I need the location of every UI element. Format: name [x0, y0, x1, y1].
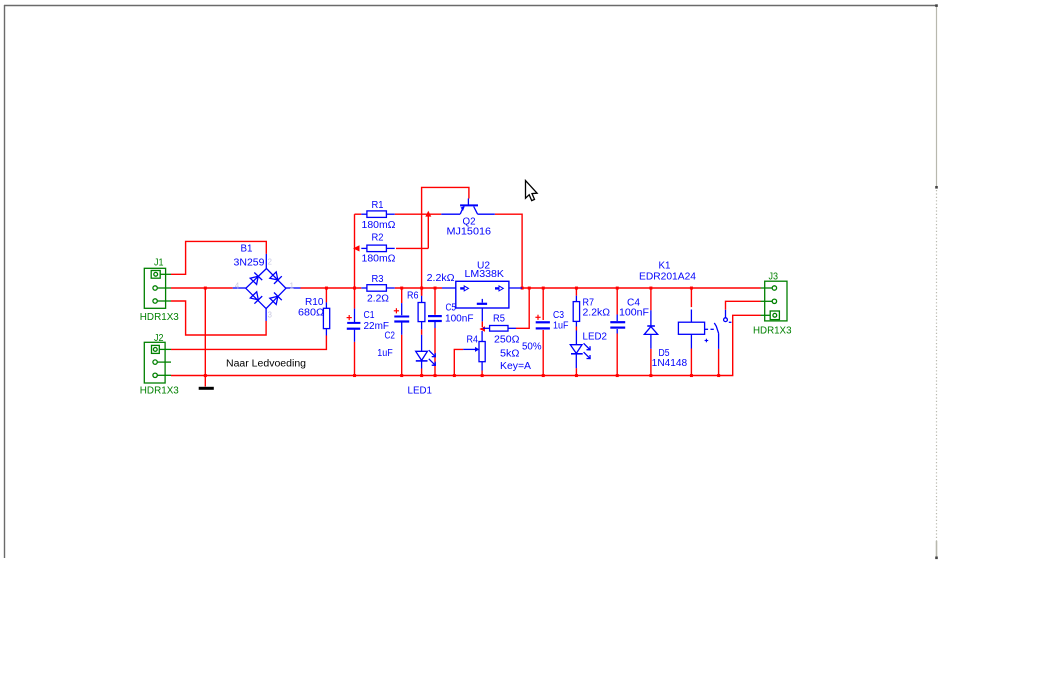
svg-text:C2: C2: [385, 331, 396, 342]
label C4: [627, 298, 640, 309]
sheet border left: [4, 5, 6, 558]
svg-text:2.2kΩ: 2.2kΩ: [427, 273, 456, 284]
svg-text:1: 1: [290, 282, 295, 291]
potentiometer R4: [463, 331, 485, 371]
wire C4 column: [616, 288, 618, 376]
svg-text:K1: K1: [659, 261, 671, 272]
label R1: [372, 200, 384, 211]
label EDR201A24: [639, 272, 696, 283]
label C5: [446, 302, 457, 313]
LED1: [416, 350, 436, 368]
bridge rectifier B1: [233, 254, 301, 321]
wire R1 right to Q2 base: [395, 213, 442, 215]
label C4 value: [619, 308, 649, 319]
svg-text:1N4148: 1N4148: [652, 358, 688, 369]
svg-text:4: 4: [235, 281, 240, 290]
svg-text:1uF: 1uF: [377, 348, 393, 359]
label D5: [659, 348, 670, 359]
sheet border top: [4, 5, 936, 7]
svg-text:LED2: LED2: [583, 332, 608, 343]
label R6 value: [427, 273, 456, 284]
svg-text:J3: J3: [769, 272, 779, 283]
capacitor C2: [394, 303, 409, 335]
svg-text:EDR201A24: EDR201A24: [639, 272, 696, 283]
capacitor C3: [536, 322, 550, 328]
svg-text:J1: J1: [154, 258, 164, 269]
capacitor C1: [347, 309, 361, 342]
wire R10 top: [325, 288, 327, 302]
svg-text:C3: C3: [553, 310, 564, 321]
wire R7 LED2 column: [575, 288, 577, 376]
wire J2 pin1 to R10 bottom: [171, 336, 326, 350]
label 50%: [522, 342, 542, 353]
label R3: [372, 274, 384, 285]
sheet border right: [935, 4, 938, 559]
wire bottom rail: [171, 315, 761, 375]
label J2: [154, 333, 164, 344]
label LED1: [408, 386, 433, 397]
label Naar Ledvoeding: [226, 359, 306, 370]
relay K1 coil: [678, 310, 713, 349]
pin number 3: [268, 311, 273, 320]
wire K1 coil column: [690, 288, 692, 376]
svg-text:180mΩ: 180mΩ: [362, 220, 397, 231]
pin number 2: [268, 258, 273, 267]
svg-text:LED1: LED1: [408, 386, 433, 397]
transistor Q2: [441, 199, 495, 215]
wire J1 pin1 to bridge top: [171, 241, 266, 274]
label C3 value: [553, 321, 569, 332]
svg-text:R6: R6: [407, 291, 419, 302]
resistor R1: [361, 211, 394, 218]
label R2 value: [362, 254, 397, 265]
svg-text:Key=A: Key=A: [500, 361, 531, 372]
wire C2 column: [401, 288, 403, 376]
C2 plus sign: [394, 308, 399, 313]
label J1 HDR1X3: [140, 312, 179, 323]
relay K1 switch: [714, 310, 731, 349]
label U2: [477, 261, 490, 272]
C3 plus sign: [535, 315, 540, 320]
resistor R2: [361, 245, 394, 252]
svg-text:HDR1X3: HDR1X3: [140, 386, 179, 397]
wire bridge right to R3: [301, 287, 362, 289]
resistor R10: [323, 302, 329, 335]
wire J1 pin3 to bridge bottom: [171, 301, 266, 335]
wire rail R3 to U2: [395, 287, 442, 289]
label LM338K: [465, 269, 505, 280]
label R7: [583, 298, 595, 309]
label J3: [769, 272, 779, 283]
label MJ15016: [447, 227, 492, 238]
diode D5: [644, 310, 657, 348]
junction dots: [204, 287, 720, 378]
label B1: [241, 244, 253, 255]
label C3: [553, 310, 564, 321]
svg-text:100nF: 100nF: [445, 314, 474, 325]
svg-text:R5: R5: [493, 314, 505, 325]
wire C1 column: [354, 288, 356, 376]
svg-text:HDR1X3: HDR1X3: [140, 312, 179, 323]
label R10: [305, 297, 324, 308]
label 22mF: [364, 321, 390, 332]
svg-text:2.2kΩ: 2.2kΩ: [583, 308, 611, 319]
resistor R6: [418, 296, 425, 352]
svg-text:R1: R1: [372, 200, 384, 211]
label R7 value: [583, 308, 611, 319]
label K1: [659, 261, 671, 272]
wire J3 pin2 to switch: [726, 301, 761, 310]
label C5 value: [445, 314, 474, 325]
wire ADJ arrow: [479, 326, 485, 331]
svg-text:J2: J2: [154, 333, 164, 344]
label Q2: [463, 217, 476, 228]
resistor R7: [573, 296, 579, 345]
wire Q2 right down to rail: [495, 214, 522, 288]
wire R2 right up to R1 wire: [396, 211, 431, 249]
svg-text:B1: B1: [241, 244, 253, 255]
capacitor C4: [610, 315, 625, 334]
svg-text:C5: C5: [446, 302, 457, 313]
wire top loop: [422, 187, 469, 295]
svg-text:MJ15016: MJ15016: [447, 227, 492, 238]
capacitor C5: [428, 316, 442, 328]
svg-text:3N259: 3N259: [234, 258, 265, 269]
wire rail U2 right to J3: [522, 287, 760, 289]
C1 plus sign: [347, 315, 352, 320]
svg-text:C1: C1: [364, 310, 375, 321]
svg-text:R10: R10: [305, 297, 324, 308]
label R2: [372, 233, 384, 244]
wire C3 column: [542, 288, 544, 376]
label 3N259: [234, 258, 265, 269]
label 1N4148: [652, 358, 688, 369]
wire switch bottom: [718, 349, 720, 376]
regulator U2: [442, 281, 522, 321]
wire R1 left: [355, 213, 362, 215]
label C2 value: [377, 348, 393, 359]
svg-text:680Ω: 680Ω: [298, 308, 325, 319]
wire R6 LED1 column: [421, 288, 423, 376]
wire R4 bottom: [481, 371, 483, 376]
label J2 HDR1X3: [140, 386, 179, 397]
wire J1 pin2 to bridge left: [171, 287, 233, 289]
label R5: [493, 314, 505, 325]
svg-text:50%: 50%: [522, 342, 542, 353]
label Key=A: [500, 361, 531, 372]
LED2: [570, 343, 590, 368]
label R5 value: [494, 335, 520, 346]
label R1 value: [362, 220, 397, 231]
mouse cursor: [526, 181, 538, 201]
label C1: [364, 310, 375, 321]
svg-text:2.2Ω: 2.2Ω: [367, 294, 390, 305]
pin number 4: [235, 281, 240, 290]
wire ADJ red segment: [481, 321, 483, 327]
label R6: [407, 291, 419, 302]
svg-text:R2: R2: [372, 233, 384, 244]
svg-text:LM338K: LM338K: [465, 269, 505, 280]
connector J2: [144, 342, 171, 383]
label 5kohm: [500, 349, 520, 360]
label C2: [385, 331, 396, 342]
connector J1: [144, 268, 171, 308]
connector J3: [761, 281, 788, 321]
label R4: [467, 335, 479, 346]
svg-text:R3: R3: [372, 274, 384, 285]
resistor R5: [483, 326, 516, 332]
svg-text:2: 2: [268, 258, 273, 267]
wire C5 column: [434, 288, 436, 376]
pin number 1: [290, 282, 295, 291]
label 680ohm: [298, 308, 325, 319]
svg-text:3: 3: [268, 311, 273, 320]
resistor R3: [361, 285, 394, 292]
svg-text:R4: R4: [467, 335, 479, 346]
svg-text:HDR1X3: HDR1X3: [753, 326, 792, 337]
wire R4 wiper: [454, 349, 463, 375]
ground: [199, 387, 214, 390]
label J1: [154, 258, 164, 269]
svg-text:Naar Ledvoeding: Naar Ledvoeding: [226, 359, 306, 370]
svg-text:100nF: 100nF: [619, 308, 649, 319]
wire R2 left arrow: [353, 245, 360, 251]
label LED2: [583, 332, 608, 343]
wire D5 column: [650, 288, 652, 376]
svg-text:250Ω: 250Ω: [494, 335, 520, 346]
svg-text:180mΩ: 180mΩ: [362, 254, 397, 265]
wire vertical to ground: [204, 288, 206, 387]
label J3 HDR1X3: [753, 326, 792, 337]
wire left column vertical: [354, 214, 356, 288]
svg-text:5kΩ: 5kΩ: [500, 349, 520, 360]
label R3 value: [367, 294, 390, 305]
svg-text:1uF: 1uF: [553, 321, 569, 332]
wire R5 right up to rail: [516, 288, 529, 328]
